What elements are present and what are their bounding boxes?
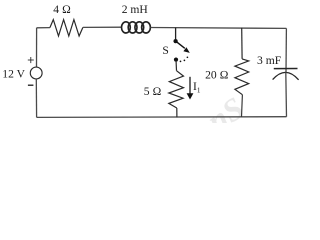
resistor R2 5ohm [169,71,184,108]
inductor L1 2mH [122,22,151,33]
svg-text:I1: I1 [193,80,201,94]
label minus [28,84,34,86]
wire 20ohm top stub [241,28,243,59]
wire top mid [83,26,122,28]
wire bottom [37,116,287,119]
wire right lower [285,72,288,116]
svg-text:12 V: 12 V [2,67,25,80]
capacitor C1 3mF plate [274,68,298,70]
wire 20ohm bottom stub [241,95,244,117]
svg-text:5 Ω: 5 Ω [144,85,162,98]
svg-text:2 mH: 2 mH [122,3,149,16]
wire switch stub [175,28,177,40]
svg-text:20 Ω: 20 Ω [205,69,228,82]
current arrow I1 [189,77,191,94]
wire top right [151,27,287,30]
switch S blade arrow [176,41,185,48]
source V1 12V circle [30,67,42,79]
wire left lower [35,79,37,118]
wire top left [37,27,50,29]
watermark [200,90,249,140]
label plus [28,57,34,63]
wire R2 bottom stub [176,108,178,117]
switch S contact top [173,39,177,43]
svg-text:3 mF: 3 mF [257,54,282,67]
capacitor C1 3mF curved plate [273,72,299,79]
resistor R1 4ohm [50,20,83,36]
svg-text:S: S [162,44,168,57]
switch travel dots [180,61,182,63]
switch contact bottom [174,58,178,62]
svg-text:4 Ω: 4 Ω [53,3,71,16]
wire right upper [285,28,287,72]
resistor R3 20ohm [235,59,249,95]
wire to R2 5ohm [175,62,177,71]
wire left upper [36,28,38,67]
